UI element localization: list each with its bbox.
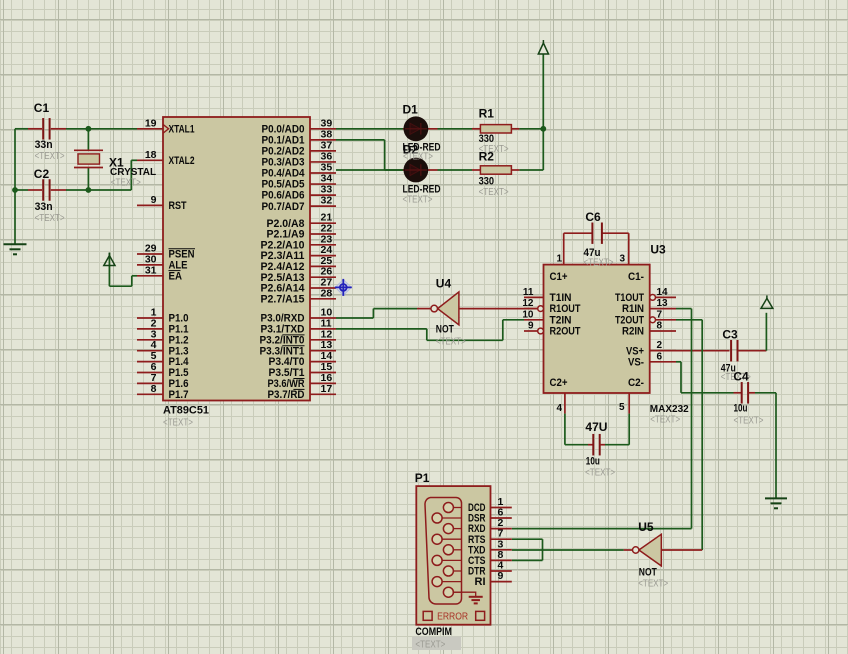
svg-text:C1: C1: [34, 101, 50, 115]
svg-text:EA: EA: [169, 270, 183, 282]
svg-text:<TEXT>: <TEXT>: [403, 151, 433, 163]
svg-text:C6: C6: [585, 210, 601, 224]
svg-text:<TEXT>: <TEXT>: [585, 467, 615, 479]
svg-text:R2IN: R2IN: [622, 326, 644, 338]
svg-text:COMPIM: COMPIM: [415, 626, 452, 638]
svg-text:C3: C3: [722, 328, 738, 342]
svg-text:8: 8: [151, 383, 157, 395]
svg-text:12: 12: [522, 298, 534, 309]
svg-text:11: 11: [523, 287, 534, 298]
svg-text:C2: C2: [34, 167, 50, 181]
svg-text:D1: D1: [403, 103, 419, 117]
svg-text:13: 13: [657, 298, 669, 309]
svg-text:7: 7: [657, 309, 663, 320]
svg-text:T2IN: T2IN: [550, 314, 572, 326]
svg-text:T1IN: T1IN: [550, 292, 572, 304]
svg-text:9: 9: [528, 321, 534, 332]
svg-text:4: 4: [556, 403, 562, 414]
svg-text:<TEXT>: <TEXT>: [35, 150, 65, 162]
svg-text:R1OUT: R1OUT: [550, 303, 581, 315]
svg-text:C1+: C1+: [550, 271, 568, 283]
svg-text:P0.7/AD7: P0.7/AD7: [262, 201, 305, 213]
svg-text:9: 9: [498, 570, 504, 582]
svg-text:<TEXT>: <TEXT>: [415, 639, 445, 651]
svg-text:R1IN: R1IN: [622, 303, 644, 315]
svg-text:31: 31: [145, 264, 157, 276]
svg-text:C1-: C1-: [628, 271, 644, 283]
svg-text:18: 18: [145, 149, 157, 161]
svg-text:3: 3: [619, 254, 625, 265]
svg-text:P3.7/RD: P3.7/RD: [268, 389, 305, 401]
svg-text:R2OUT: R2OUT: [550, 326, 581, 338]
svg-text:C2+: C2+: [550, 377, 568, 389]
svg-text:6: 6: [657, 351, 663, 362]
svg-text:RI: RI: [475, 576, 486, 588]
svg-text:<TEXT>: <TEXT>: [650, 414, 680, 426]
svg-text:VS-: VS-: [628, 356, 644, 368]
svg-text:<TEXT>: <TEXT>: [403, 194, 433, 206]
svg-text:R1: R1: [479, 107, 495, 121]
svg-text:P2.7/A15: P2.7/A15: [261, 293, 305, 305]
svg-text:28: 28: [321, 287, 333, 299]
svg-text:32: 32: [321, 195, 333, 207]
svg-text:47U: 47U: [585, 420, 607, 434]
svg-text:10u: 10u: [734, 403, 748, 415]
svg-text:ERROR: ERROR: [437, 612, 468, 623]
svg-text:C2-: C2-: [628, 377, 644, 389]
svg-text:<TEXT>: <TEXT>: [111, 177, 141, 189]
svg-text:XTAL1: XTAL1: [169, 123, 195, 135]
svg-text:U4: U4: [436, 277, 452, 291]
svg-text:14: 14: [657, 287, 669, 298]
svg-text:XTAL2: XTAL2: [169, 155, 195, 167]
svg-text:1: 1: [556, 254, 562, 265]
svg-text:P1.7: P1.7: [169, 389, 189, 401]
svg-text:U5: U5: [638, 520, 654, 534]
svg-text:5: 5: [619, 402, 625, 413]
svg-text:AT89C51: AT89C51: [163, 405, 209, 417]
svg-text:RST: RST: [169, 200, 187, 212]
svg-text:2: 2: [657, 340, 663, 351]
svg-text:<TEXT>: <TEXT>: [479, 186, 509, 198]
svg-text:<TEXT>: <TEXT>: [35, 212, 65, 224]
svg-text:NOT: NOT: [436, 324, 454, 336]
svg-text:C4: C4: [733, 370, 749, 384]
svg-text:<TEXT>: <TEXT>: [584, 257, 614, 269]
svg-text:<TEXT>: <TEXT>: [638, 578, 668, 590]
svg-text:17: 17: [321, 383, 333, 395]
svg-text:8: 8: [657, 321, 663, 332]
svg-text:<TEXT>: <TEXT>: [436, 336, 466, 348]
svg-text:R2: R2: [479, 150, 495, 164]
svg-text:10: 10: [522, 309, 534, 320]
svg-text:U3: U3: [650, 243, 666, 257]
svg-text:P1: P1: [415, 471, 430, 485]
svg-text:T2OUT: T2OUT: [615, 314, 644, 326]
svg-text:9: 9: [151, 194, 157, 206]
svg-text:19: 19: [145, 117, 157, 129]
svg-text:T1OUT: T1OUT: [615, 292, 644, 304]
svg-text:<TEXT>: <TEXT>: [163, 417, 193, 429]
svg-text:<TEXT>: <TEXT>: [734, 415, 764, 427]
